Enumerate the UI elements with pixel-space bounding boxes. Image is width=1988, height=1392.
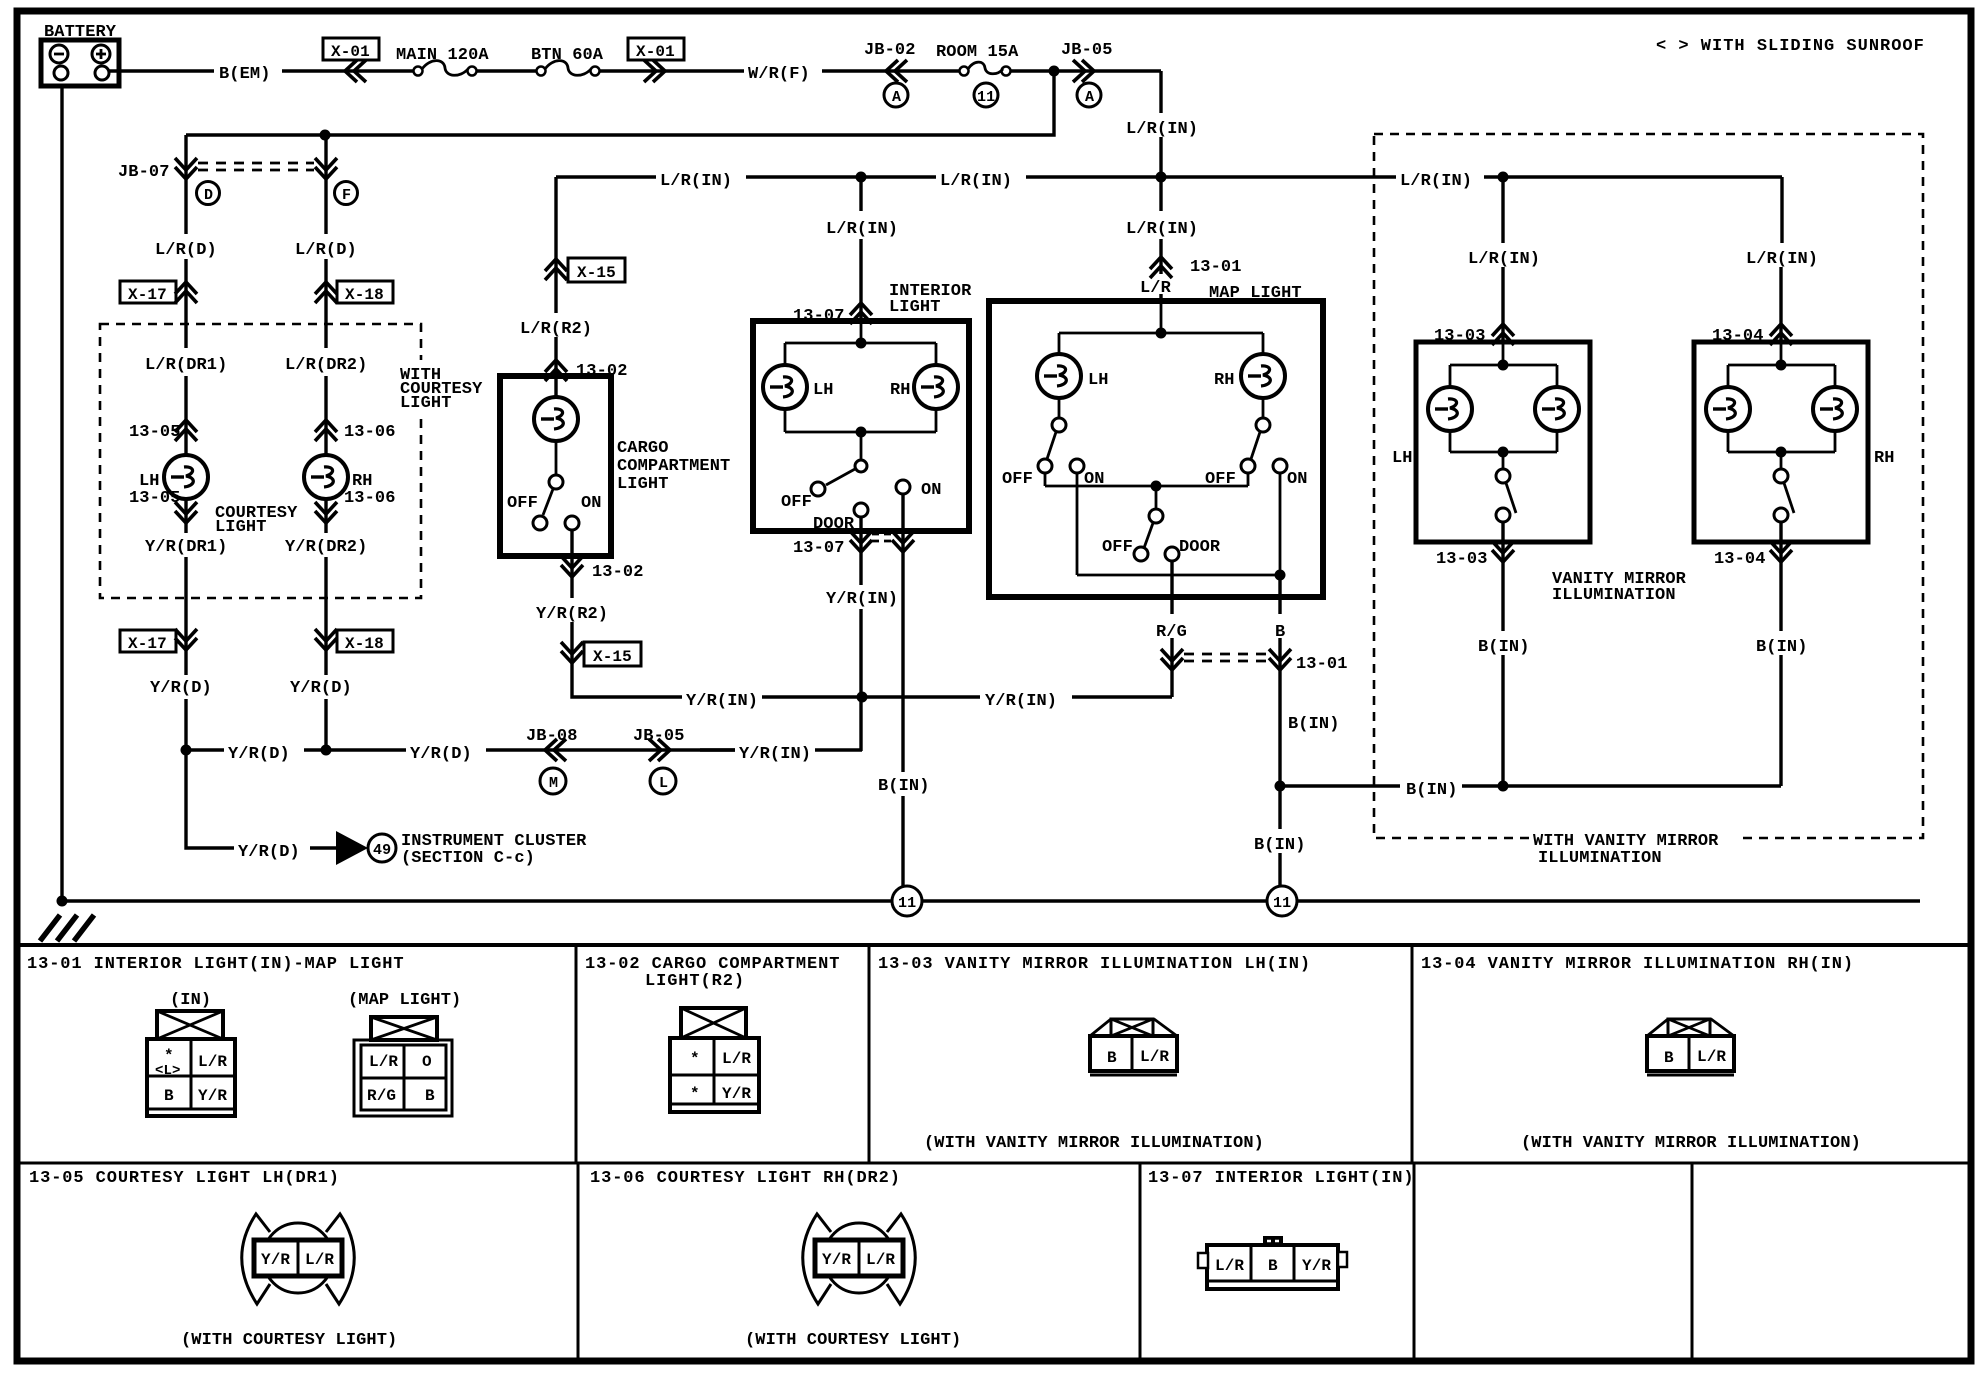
title 13-02 cell: [585, 955, 840, 991]
svg-text:ON: ON: [1287, 470, 1308, 489]
vanity RH switch lever: [1784, 483, 1794, 513]
connector chevron JB-05: [1073, 60, 1094, 82]
chevron JB-05 lower: [649, 739, 670, 761]
svg-text:W/R(F): W/R(F): [748, 65, 810, 84]
connector 13-07 pinout: [1198, 1236, 1347, 1289]
svg-text:13-05 COURTESY LIGHT LH(DR1): 13-05 COURTESY LIGHT LH(DR1): [29, 1169, 340, 1188]
svg-text:X-18: X-18: [345, 286, 384, 304]
svg-text:LIGHT: LIGHT: [889, 298, 941, 317]
bus L/R(IN) y177: [556, 175, 1782, 178]
lamp vanity LH 2: [1535, 387, 1579, 431]
svg-text:COMPARTMENT: COMPARTMENT: [617, 457, 730, 476]
node map off bus: [1151, 481, 1162, 492]
circled 49: [368, 834, 396, 862]
svg-text:L/R(IN): L/R(IN): [660, 172, 732, 191]
chevron 13-07 bottom right: [892, 531, 914, 552]
node interior door branch: [857, 692, 868, 703]
connector X-15 top: [568, 258, 625, 282]
svg-text:JB-05: JB-05: [633, 727, 685, 746]
svg-text:Y/R(R2): Y/R(R2): [536, 605, 608, 624]
svg-text:DOOR: DOOR: [1179, 538, 1221, 557]
svg-text:X-17: X-17: [128, 635, 167, 653]
table row divider: [17, 1162, 1971, 1165]
connector 13-02 pinout: [670, 1008, 759, 1112]
svg-text:13-06 COURTESY LIGHT RH(DR2): 13-06 COURTESY LIGHT RH(DR2): [590, 1169, 901, 1188]
interior inner wires top: [785, 321, 936, 459]
node vanity LH top: [1498, 360, 1509, 371]
svg-text:Y/R(D): Y/R(D): [238, 843, 300, 862]
wire cargo drop x556: [554, 177, 557, 397]
node vanity RH top: [1776, 360, 1787, 371]
wire: [477, 69, 536, 72]
svg-text:*: *: [690, 1050, 700, 1068]
svg-text:X-01: X-01: [636, 43, 675, 61]
svg-text:X-17: X-17: [128, 286, 167, 304]
svg-text:Y/R(D): Y/R(D): [290, 679, 352, 698]
svg-text:(MAP LIGHT): (MAP LIGHT): [348, 991, 461, 1010]
wire vanity RH drop x1781: [1781, 177, 1782, 342]
ground symbol: [40, 915, 94, 941]
svg-text:B: B: [164, 1087, 174, 1105]
svg-text:BTN 60A: BTN 60A: [531, 46, 604, 65]
chevron JB-08: [545, 739, 566, 761]
arrow to instrument cluster: [336, 831, 368, 865]
circled F: [335, 182, 358, 205]
svg-text:Y/R(D): Y/R(D): [228, 745, 290, 764]
svg-text:L/R(D): L/R(D): [295, 241, 357, 260]
svg-text:13-02: 13-02: [592, 563, 644, 582]
map on bus: [1077, 473, 1280, 575]
node bus/jb05: [1156, 172, 1167, 183]
svg-text:L/R(D): L/R(D): [155, 241, 217, 260]
svg-text:Y/R: Y/R: [198, 1087, 227, 1105]
svg-text:LH: LH: [1392, 449, 1413, 468]
wire courtesy RH drop x326: [324, 135, 327, 750]
svg-text:RH: RH: [890, 381, 911, 400]
13-01 dashed link: [1184, 654, 1268, 661]
cargo compartment light box: [500, 376, 611, 556]
circled M: [540, 768, 566, 794]
svg-text:Y/R: Y/R: [722, 1085, 751, 1103]
circled A (JB-05): [1077, 83, 1101, 107]
vanity RH switch contact: [1774, 508, 1788, 522]
svg-text:49: 49: [373, 842, 391, 859]
lamp map LH: [1037, 354, 1081, 398]
wire vanity LH drop x1503: [1501, 177, 1504, 342]
wire on out: [901, 494, 904, 886]
svg-text:ROOM 15A: ROOM 15A: [936, 43, 1019, 62]
label CARGO COMPARTMENT LIGHT: [617, 439, 730, 494]
svg-text:(IN): (IN): [170, 991, 211, 1010]
switch lever cargo: [543, 489, 553, 515]
connector 13-02 top chevron: [545, 360, 567, 381]
lamp vanity RH 2: [1813, 387, 1857, 431]
chevron 13-03 bottom: [1492, 541, 1514, 562]
svg-text:L/R: L/R: [1140, 279, 1172, 298]
map LH switch upper contact: [1052, 418, 1066, 432]
svg-text:X-18: X-18: [345, 635, 384, 653]
lamp courtesy LH: [164, 455, 208, 499]
fuse BTN 60A: [531, 46, 604, 76]
svg-text:Y/R(D): Y/R(D): [150, 679, 212, 698]
label COURTESY LIGHT: [215, 504, 298, 537]
bus Y/R(D) y750: [186, 748, 862, 751]
svg-text:< > WITH SLIDING SUNROOF: < > WITH SLIDING SUNROOF: [1656, 37, 1925, 56]
svg-text:L/R(IN): L/R(IN): [940, 172, 1012, 191]
lamp interior LH: [763, 365, 807, 409]
lamp interior RH: [914, 365, 958, 409]
map LH contact ON: [1070, 459, 1084, 473]
svg-text:L/R: L/R: [1697, 1048, 1726, 1066]
svg-text:LIGHT: LIGHT: [617, 475, 669, 494]
vanity LH box: [1416, 342, 1590, 542]
svg-text:B: B: [1664, 1049, 1674, 1067]
switch pivot interior: [855, 460, 867, 472]
svg-text:13-07 INTERIOR LIGHT(IN): 13-07 INTERIOR LIGHT(IN): [1148, 1169, 1414, 1188]
circled D: [197, 182, 220, 205]
wire door out: [859, 517, 862, 751]
svg-text:11: 11: [898, 895, 916, 912]
svg-text:13-07: 13-07: [793, 539, 845, 558]
chevron X-15 top: [545, 259, 567, 280]
switch pivot cargo: [549, 475, 563, 489]
svg-text:L/R(IN): L/R(IN): [1126, 220, 1198, 239]
map LH contact OFF: [1038, 459, 1052, 473]
map off bus: [1045, 473, 1248, 509]
map RH switch upper contact: [1256, 418, 1270, 432]
svg-text:13-03 VANITY MIRROR ILLUMINATI: 13-03 VANITY MIRROR ILLUMINATION LH(IN): [878, 955, 1311, 974]
svg-text:13-05: 13-05: [129, 489, 181, 508]
svg-text:B(IN): B(IN): [878, 777, 930, 796]
connector 13-01 IN pinout: [147, 1011, 235, 1116]
svg-text:ILLUMINATION: ILLUMINATION: [1538, 849, 1662, 868]
battery: [41, 40, 119, 86]
svg-text:LIGHT: LIGHT: [215, 518, 267, 537]
circled 11 (right): [1267, 886, 1297, 916]
svg-text:X-01: X-01: [331, 43, 370, 61]
wire B out: [1278, 575, 1281, 886]
table row1 column dividers: [576, 945, 1412, 1163]
dashed box with courtesy light: [100, 324, 421, 598]
svg-text:L/R: L/R: [1140, 1048, 1169, 1066]
svg-text:Y/R(IN): Y/R(IN): [686, 692, 758, 711]
svg-text:X-15: X-15: [593, 648, 632, 666]
map door switch lever: [1144, 523, 1153, 548]
lamp map RH: [1241, 354, 1285, 398]
svg-text:Y/R(IN): Y/R(IN): [826, 590, 898, 609]
map RH contact OFF: [1241, 459, 1255, 473]
svg-text:OFF: OFF: [1102, 538, 1133, 557]
node at x325: [320, 130, 331, 141]
connector 13-06 lower: [344, 489, 396, 508]
wire down from JB-05 to bus: [1159, 71, 1162, 177]
svg-text:11: 11: [977, 89, 995, 106]
svg-text:(SECTION C-c): (SECTION C-c): [401, 849, 535, 868]
svg-text:13-06: 13-06: [344, 489, 396, 508]
svg-text:L: L: [659, 775, 668, 792]
svg-text:L/R(IN): L/R(IN): [1126, 120, 1198, 139]
connector 13-06 socket: [803, 1214, 916, 1304]
svg-text:<L>: <L>: [155, 1063, 181, 1079]
ground bus y901: [62, 899, 1920, 902]
circled A (JB-02): [884, 83, 908, 107]
svg-text:B(IN): B(IN): [1478, 638, 1530, 657]
contact DOOR interior: [854, 503, 868, 517]
svg-text:13-01 INTERIOR LIGHT(IN)-MAP L: 13-01 INTERIOR LIGHT(IN)-MAP LIGHT: [27, 955, 404, 974]
svg-text:13-04 VANITY MIRROR ILLUMINATI: 13-04 VANITY MIRROR ILLUMINATION RH(IN): [1421, 955, 1854, 974]
node ground left: [57, 896, 68, 907]
svg-text:A: A: [892, 89, 901, 106]
vanity LH switch pivot: [1496, 469, 1510, 483]
connector X-15 bottom: [584, 642, 641, 666]
svg-text:L/R(IN): L/R(IN): [1400, 172, 1472, 191]
svg-text:R/G: R/G: [1156, 623, 1187, 642]
chevron 13-04 top: [1770, 324, 1792, 345]
connector X-01 (right): [628, 38, 684, 61]
svg-text:*: *: [690, 1085, 700, 1103]
lamp vanity RH 1: [1706, 387, 1750, 431]
wire B(EM) from battery: [109, 69, 413, 72]
contact ON cargo: [565, 516, 579, 530]
connector X-17 lower: [120, 630, 176, 653]
bus B(IN) y786: [1280, 784, 1781, 787]
svg-text:Y/R(DR2): Y/R(DR2): [285, 538, 367, 557]
svg-text:LIGHT: LIGHT: [400, 394, 452, 413]
contact OFF interior: [811, 482, 825, 496]
svg-text:LH: LH: [813, 381, 834, 400]
label WITH VANITY MIRROR ILLUMINATION: [1533, 832, 1719, 868]
connector JB-07 chevron right: [315, 158, 337, 179]
map inner wires: [1059, 301, 1263, 418]
lamp courtesy RH: [304, 455, 348, 499]
svg-text:DOOR: DOOR: [813, 515, 855, 534]
wire: [822, 69, 959, 72]
wire to instrument cluster: [186, 750, 336, 848]
svg-text:LIGHT(R2): LIGHT(R2): [645, 972, 745, 991]
node vanity LH bottom: [1498, 447, 1509, 458]
interior light box: [753, 321, 969, 531]
chevron 13-07 top: [850, 303, 872, 324]
circled 11 (ROOM fuse): [974, 83, 998, 107]
svg-text:B(IN): B(IN): [1756, 638, 1808, 657]
contact ON interior: [896, 480, 910, 494]
battery ground drop x62: [60, 86, 63, 901]
svg-text:L/R: L/R: [305, 1251, 334, 1269]
svg-text:L/R: L/R: [722, 1050, 751, 1068]
svg-text:13-03: 13-03: [1436, 550, 1488, 569]
wire cargo out: [572, 530, 1172, 697]
dash between 13-07 chevrons: [872, 534, 893, 541]
svg-text:CARGO: CARGO: [617, 439, 669, 458]
svg-text:Y/R(DR1): Y/R(DR1): [145, 538, 227, 557]
chevron 13-04 bottom: [1770, 541, 1792, 562]
vanity LH inner wires: [1450, 342, 1557, 470]
map RH contact ON: [1273, 459, 1287, 473]
connector X-01 (left): [323, 38, 379, 61]
lamp cargo: [534, 397, 578, 441]
chevron 13-02 bottom: [561, 556, 583, 577]
svg-text:L/R: L/R: [198, 1053, 227, 1071]
chevron X-15 bottom: [561, 642, 583, 663]
svg-text:OFF: OFF: [1002, 470, 1033, 489]
svg-text:B(IN): B(IN): [1254, 836, 1306, 855]
node B bus: [1275, 781, 1286, 792]
svg-text:11: 11: [1273, 895, 1291, 912]
wire courtesy LH drop x186: [184, 135, 187, 750]
node at 186,750: [181, 745, 192, 756]
map contact DOOR: [1165, 547, 1179, 561]
svg-text:(WITH VANITY MIRROR ILLUMINATI: (WITH VANITY MIRROR ILLUMINATION): [924, 1134, 1264, 1153]
connector 13-06 upper: [344, 423, 396, 442]
connector JB-07 chevron left: [175, 158, 197, 179]
svg-text:ILLUMINATION: ILLUMINATION: [1552, 586, 1676, 605]
connector chevron X-01 left: [345, 60, 366, 82]
label VANITY MIRROR ILLUMINATION: [1552, 570, 1687, 605]
svg-text:L/R(DR2): L/R(DR2): [285, 356, 367, 375]
svg-text:B: B: [425, 1087, 435, 1105]
wire: [600, 69, 744, 72]
chevron 13-01 right: [1269, 649, 1291, 670]
wire Y/R(IN) left bus end y750: [700, 748, 735, 751]
chevron 13-07 bottom left: [850, 531, 872, 552]
svg-text:L/R(IN): L/R(IN): [1746, 250, 1818, 269]
label INSTRUMENT CLUSTER: [401, 832, 587, 868]
map door switch pivot: [1149, 509, 1163, 523]
svg-text:13-01: 13-01: [1190, 258, 1242, 277]
svg-text:Y/R: Y/R: [1302, 1257, 1331, 1275]
svg-text:Y/R(IN): Y/R(IN): [739, 745, 811, 764]
svg-text:Y/R(D): Y/R(D): [410, 745, 472, 764]
svg-text:13-05: 13-05: [129, 423, 181, 442]
map contact OFF door: [1134, 547, 1148, 561]
connector 13-03 pinout: [1090, 1019, 1177, 1075]
connector chevron JB-02: [886, 60, 907, 82]
connector 13-01 MAP LIGHT pinout: [354, 1017, 452, 1116]
JB-07 dashed link: [198, 163, 314, 170]
svg-text:Y/R(IN): Y/R(IN): [985, 692, 1057, 711]
wire bulb to switch: [555, 441, 558, 475]
svg-text:B: B: [1268, 1257, 1278, 1275]
svg-text:L/R: L/R: [866, 1251, 895, 1269]
connector X-18 upper: [337, 281, 393, 304]
svg-text:M: M: [549, 775, 558, 792]
connector chevron X-01 right: [644, 60, 665, 82]
circled 11 (left): [892, 886, 922, 916]
svg-text:L/R(IN): L/R(IN): [1468, 250, 1540, 269]
vanity RH switch pivot: [1774, 469, 1788, 483]
chevron 13-03 top: [1492, 324, 1514, 345]
svg-text:JB-02: JB-02: [864, 41, 916, 60]
table grid top line: [17, 943, 1971, 947]
node bus/vanityLH: [1498, 172, 1509, 183]
vanity LH switch contact: [1496, 508, 1510, 522]
svg-text:L/R(DR1): L/R(DR1): [145, 356, 227, 375]
connector X-17 upper: [120, 281, 176, 304]
wire vanity LH out: [1501, 522, 1504, 786]
map LH switch lever: [1047, 432, 1056, 459]
connector 13-05 socket: [242, 1214, 355, 1304]
svg-text:LH: LH: [1088, 371, 1109, 390]
chevron 13-01 map: [1150, 257, 1172, 278]
node bus/interior: [856, 172, 867, 183]
node vanity RH bottom: [1776, 447, 1787, 458]
svg-text:D: D: [204, 187, 213, 204]
contact OFF cargo: [533, 516, 547, 530]
vanity RH inner wires: [1728, 342, 1835, 470]
svg-text:OFF: OFF: [507, 494, 538, 513]
svg-text:(WITH COURTESY LIGHT): (WITH COURTESY LIGHT): [181, 1331, 397, 1350]
map RH switch lever: [1251, 432, 1260, 459]
wire feeder y135: [186, 73, 1054, 135]
chevron X-17 upper: [175, 282, 197, 303]
svg-text:B(IN): B(IN): [1288, 715, 1340, 734]
svg-text:R/G: R/G: [367, 1087, 396, 1105]
svg-text:(WITH VANITY MIRROR ILLUMINATI: (WITH VANITY MIRROR ILLUMINATION): [1521, 1134, 1861, 1153]
fuse MAIN 120A: [396, 46, 489, 76]
circled L: [650, 768, 676, 794]
wire vanity RH out: [1779, 522, 1782, 786]
svg-text:RH: RH: [1874, 449, 1895, 468]
svg-text:13-01: 13-01: [1296, 655, 1348, 674]
svg-text:A: A: [1085, 89, 1094, 106]
svg-text:13-04: 13-04: [1714, 550, 1766, 569]
node map on bus: [1275, 570, 1286, 581]
chevron X-18 upper: [315, 282, 337, 303]
svg-text:L/R: L/R: [369, 1053, 398, 1071]
svg-text:13-06: 13-06: [344, 423, 396, 442]
svg-text:RH: RH: [1214, 371, 1235, 390]
node at 326,750: [321, 745, 332, 756]
connector 13-05 lower: [129, 489, 181, 508]
map light box: [989, 301, 1323, 597]
node vanity LH ground: [1498, 781, 1509, 792]
svg-text:L/R: L/R: [1215, 1257, 1244, 1275]
node junction at x1054: [1049, 66, 1060, 77]
wire R/G out: [1170, 561, 1173, 697]
chevron 13-01 left: [1161, 649, 1183, 670]
node map top: [1156, 328, 1167, 339]
svg-text:F: F: [342, 187, 351, 204]
switch lever interior: [826, 469, 855, 485]
svg-text:ON: ON: [921, 481, 942, 500]
label INTERIOR LIGHT: [889, 282, 972, 317]
chevron X-17 lower: [175, 629, 197, 650]
connector 13-04 pinout: [1647, 1019, 1734, 1075]
svg-text:O: O: [422, 1053, 432, 1071]
vanity LH switch lever: [1506, 483, 1516, 513]
wire map feed x1161: [1159, 177, 1162, 301]
svg-text:L/R(IN): L/R(IN): [826, 220, 898, 239]
table row2 column dividers: [578, 1163, 1692, 1361]
svg-text:B: B: [1107, 1049, 1117, 1067]
svg-text:OFF: OFF: [781, 493, 812, 512]
chevron X-18 lower: [315, 629, 337, 650]
vanity RH box: [1694, 342, 1868, 542]
svg-text:Y/R: Y/R: [261, 1251, 290, 1269]
svg-text:B(IN): B(IN): [1406, 781, 1458, 800]
svg-text:ON: ON: [581, 494, 602, 513]
fuse ROOM 15A: [936, 43, 1019, 76]
label WITH COURTESY LIGHT: [396, 360, 496, 413]
junction JB-02: [864, 41, 916, 60]
node interior bottom: [856, 427, 867, 438]
dashed box with vanity mirror illumination: [1374, 134, 1923, 838]
svg-text:JB-07: JB-07: [118, 163, 170, 182]
node interior top: [856, 338, 867, 349]
wire: [1011, 69, 1161, 72]
svg-text:B(EM): B(EM): [219, 65, 271, 84]
svg-text:Y/R: Y/R: [822, 1251, 851, 1269]
